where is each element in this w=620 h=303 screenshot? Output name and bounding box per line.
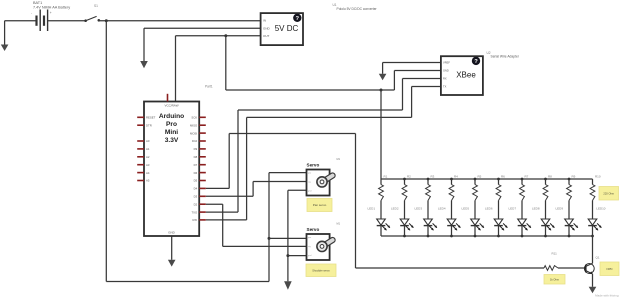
svg-text:sig: sig: [308, 182, 311, 184]
svg-text:R2: R2: [407, 174, 411, 178]
svg-text:A0: A0: [146, 139, 150, 143]
svg-text:R11: R11: [552, 252, 558, 256]
svg-text:A4: A4: [146, 171, 150, 175]
svg-text:sig: sig: [308, 246, 311, 248]
svg-text:R3: R3: [431, 174, 435, 178]
svg-text:5V DC: 5V DC: [275, 24, 299, 33]
svg-text:A5: A5: [146, 179, 150, 183]
svg-text:pwr: pwr: [308, 237, 312, 239]
svg-text:D9: D9: [194, 147, 198, 151]
svg-text:Servo: Servo: [307, 163, 320, 168]
svg-text:D8: D8: [194, 155, 198, 159]
svg-text:LED9: LED9: [556, 207, 564, 211]
svg-text:TX: TX: [443, 85, 447, 89]
svg-text:Arduino: Arduino: [159, 113, 184, 120]
svg-text:M1: M1: [337, 157, 341, 161]
svg-text:R9: R9: [572, 174, 576, 178]
svg-text:Pro: Pro: [166, 121, 177, 128]
svg-text:S1: S1: [94, 4, 98, 8]
svg-text:OUT: OUT: [263, 34, 270, 38]
svg-text:+: +: [50, 11, 52, 15]
svg-text:RX: RX: [443, 77, 447, 81]
svg-text:LED2: LED2: [391, 207, 399, 211]
svg-text:RXI: RXI: [193, 218, 198, 222]
svg-text:7.4V NiMH AA Battery: 7.4V NiMH AA Battery: [33, 6, 70, 10]
svg-text:R8: R8: [548, 174, 552, 178]
svg-text:A2: A2: [146, 155, 150, 159]
svg-text:LED6: LED6: [485, 207, 493, 211]
svg-text:VCC/RAW: VCC/RAW: [164, 103, 178, 107]
svg-text:M1: M1: [337, 222, 341, 226]
svg-text:D6: D6: [194, 171, 198, 175]
svg-text:SCK: SCK: [191, 116, 197, 120]
svg-text:GND: GND: [168, 231, 176, 235]
svg-text:3.3V: 3.3V: [165, 137, 179, 144]
svg-text:Q1: Q1: [596, 256, 600, 260]
svg-text:pwr: pwr: [308, 173, 312, 175]
svg-text:GND: GND: [263, 27, 271, 31]
svg-text:R4: R4: [454, 174, 458, 178]
svg-text:LED4: LED4: [438, 207, 446, 211]
svg-text:Pan servo: Pan servo: [313, 203, 327, 207]
svg-text:220 Ohm: 220 Ohm: [603, 191, 614, 195]
svg-text:VREF: VREF: [443, 61, 450, 65]
svg-text:R5: R5: [478, 174, 482, 178]
svg-text:LED3: LED3: [415, 207, 423, 211]
svg-text:NPN: NPN: [607, 267, 613, 271]
svg-text:Serial Wire Adapter: Serial Wire Adapter: [491, 55, 520, 59]
svg-text:Made with fritzing: Made with fritzing: [595, 294, 619, 298]
svg-text:R6: R6: [501, 174, 505, 178]
svg-text:LED7: LED7: [509, 207, 517, 211]
svg-text:GND: GND: [443, 69, 449, 73]
svg-text:LED8: LED8: [532, 207, 540, 211]
svg-text:Part1: Part1: [205, 85, 213, 89]
svg-text:Pololu 5V DC/DC converter: Pololu 5V DC/DC converter: [337, 7, 378, 11]
svg-text:?: ?: [474, 59, 478, 65]
svg-text:D10: D10: [192, 139, 198, 143]
svg-text:MISO: MISO: [190, 123, 198, 127]
svg-text:D3: D3: [194, 195, 198, 199]
svg-text:IN: IN: [263, 18, 266, 22]
svg-text:1k Ohm: 1k Ohm: [550, 277, 559, 281]
svg-text:?: ?: [296, 16, 300, 22]
svg-text:D7: D7: [194, 163, 198, 167]
svg-text:R7: R7: [525, 174, 529, 178]
svg-text:MOSI: MOSI: [190, 131, 197, 135]
svg-text:gnd: gnd: [308, 191, 311, 193]
svg-text:TXO: TXO: [191, 210, 198, 214]
svg-text:LED5: LED5: [462, 207, 470, 211]
svg-text:RESET: RESET: [146, 116, 156, 120]
svg-text:LED10: LED10: [596, 207, 606, 211]
svg-text:BAT1: BAT1: [33, 1, 42, 5]
svg-text:R1: R1: [384, 174, 388, 178]
svg-text:D4: D4: [194, 187, 198, 191]
svg-text:A1: A1: [146, 147, 150, 151]
svg-text:Shoulder servo: Shoulder servo: [312, 268, 330, 272]
svg-text:gnd: gnd: [308, 255, 311, 257]
svg-text:D5: D5: [194, 179, 198, 183]
svg-text:A3: A3: [146, 163, 150, 167]
svg-text:DTR: DTR: [146, 123, 152, 127]
svg-text:XBee: XBee: [456, 71, 476, 80]
svg-text:-: -: [31, 11, 32, 15]
svg-text:R10: R10: [595, 174, 601, 178]
svg-text:Servo: Servo: [307, 227, 320, 232]
svg-text:Mini: Mini: [165, 129, 178, 136]
svg-text:LED1: LED1: [368, 207, 376, 211]
svg-text:D2: D2: [194, 202, 198, 206]
